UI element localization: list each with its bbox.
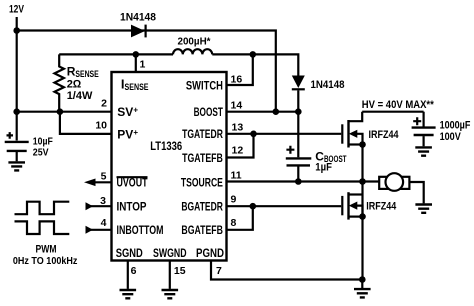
- wire PV+ pin10: [60, 112, 112, 134]
- svg-text:8: 8: [231, 217, 237, 229]
- node junction TGATEFB tie: [250, 131, 257, 138]
- ground SGND: [120, 290, 137, 298]
- svg-text:10: 10: [95, 120, 107, 132]
- pin 8 BGATEFB: [227, 206, 253, 230]
- pin 5 UVOUT (overline): [90, 181, 112, 183]
- svg-text:2Ω: 2Ω: [67, 79, 82, 91]
- ground below C2: [415, 147, 432, 155]
- svg-text:12V: 12V: [9, 4, 25, 16]
- pin 7 PGND: [211, 261, 362, 280]
- node junction switch tap: [250, 51, 257, 58]
- node junction D2-BOOST: [295, 108, 302, 115]
- svg-text:200µH*: 200µH*: [178, 36, 212, 48]
- inductor L1 200uH: [173, 49, 212, 54]
- svg-text:INTOP: INTOP: [117, 200, 147, 214]
- transistor Q1 IRFZ44 (top): [341, 124, 343, 143]
- svg-text:PGND: PGND: [196, 246, 224, 260]
- svg-text:7: 7: [216, 265, 222, 277]
- PWM source square waves: [15, 202, 70, 215]
- capacitor C1 10uF 25V: [5, 141, 29, 143]
- node junction 12V rail: [13, 27, 20, 34]
- svg-text:SGND: SGND: [116, 246, 143, 260]
- svg-text:INBOTTOM: INBOTTOM: [117, 223, 164, 237]
- motor M1: [363, 180, 380, 182]
- node junction BGATEFB tie: [250, 203, 257, 210]
- svg-text:3: 3: [100, 195, 106, 207]
- node junction CBOOST-TSOURCE: [295, 178, 302, 185]
- svg-text:1N4148: 1N4148: [120, 12, 156, 24]
- svg-text:PWM: PWM: [36, 244, 57, 256]
- pin 12 TGATEFB: [227, 134, 254, 158]
- node junction 12V-BOOST: [273, 108, 280, 115]
- pin 13 TGATEDR: [227, 133, 342, 135]
- svg-text:BGATEFB: BGATEFB: [181, 223, 223, 237]
- svg-text:1N4148: 1N4148: [311, 79, 345, 91]
- pin 14 BOOST: [227, 111, 299, 113]
- svg-text:13: 13: [232, 122, 244, 134]
- capacitor C2 1000uF 100V: [423, 112, 425, 127]
- pin 4 INBOTTOM: [88, 229, 112, 231]
- wire 12V vertical feed: [16, 17, 18, 141]
- wire sense/switch line: [59, 53, 173, 55]
- svg-text:15: 15: [174, 265, 186, 277]
- capacitor CBOOST 1uF: [297, 112, 299, 158]
- svg-text:BGATEDR: BGATEDR: [181, 200, 223, 214]
- svg-text:14: 14: [231, 100, 243, 112]
- svg-text:BOOST: BOOST: [194, 105, 224, 119]
- svg-text:12: 12: [232, 145, 244, 157]
- wire 12V top rail to BOOST: [17, 31, 276, 112]
- resistor RSENSE 2ohm 1/4W: [55, 54, 64, 111]
- svg-text:1000µF: 1000µF: [440, 120, 471, 132]
- plus sign C1: [7, 132, 14, 139]
- svg-text:100V: 100V: [440, 131, 462, 143]
- node junction bottom rail: [359, 276, 366, 283]
- svg-text:HV = 40V MAX**: HV = 40V MAX**: [362, 99, 435, 111]
- svg-text:5: 5: [101, 171, 107, 183]
- svg-text:1/4W: 1/4W: [67, 90, 93, 102]
- svg-text:1: 1: [140, 59, 146, 71]
- wire SV+ pin2: [17, 111, 112, 113]
- svg-text:6: 6: [131, 265, 137, 277]
- svg-text:1µF: 1µF: [315, 162, 332, 174]
- ground below C1: [8, 162, 25, 170]
- ground motor right: [415, 205, 432, 213]
- svg-text:11: 11: [231, 170, 242, 182]
- svg-text:IRFZ44: IRFZ44: [369, 129, 400, 141]
- pin 16 SWITCH: [227, 54, 253, 85]
- pin 3 INTOP: [88, 205, 112, 207]
- wire HV rail: [362, 111, 423, 113]
- svg-text:9: 9: [231, 194, 237, 206]
- pin 9 BGATEDR: [227, 205, 342, 207]
- svg-text:IRFZ44: IRFZ44: [366, 201, 397, 213]
- svg-text:SWGND: SWGND: [153, 246, 187, 260]
- svg-text:16: 16: [231, 74, 243, 86]
- wire motor node vertical: [361, 145, 363, 280]
- pin 11 TSOURCE: [227, 180, 363, 182]
- svg-text:LT1336: LT1336: [150, 141, 182, 153]
- transistor Q2 IRFZ44 (bottom): [341, 196, 343, 215]
- IC U1 LT1336 body: [112, 72, 227, 261]
- ground bottom rail: [361, 280, 363, 289]
- svg-text:TGATEFB: TGATEFB: [182, 151, 223, 165]
- svg-text:25V: 25V: [33, 147, 49, 159]
- pin 15 SWGND: [169, 261, 171, 289]
- pin 6 SGND: [127, 261, 129, 289]
- svg-text:SWITCH: SWITCH: [186, 78, 223, 92]
- diode D2 1N4148 (vertical): [292, 76, 305, 89]
- node junction motor node: [359, 178, 366, 185]
- ground SWGND: [162, 290, 179, 298]
- svg-text:TGATEDR: TGATEDR: [182, 127, 223, 141]
- node junction SV line left: [13, 108, 20, 115]
- svg-text:TSOURCE: TSOURCE: [181, 176, 223, 190]
- diode D1 1N4148 (horizontal): [131, 25, 145, 38]
- svg-text:2: 2: [101, 98, 107, 110]
- node junction pin1 tap: [133, 51, 140, 58]
- svg-text:0Hz TO 100kHz: 0Hz TO 100kHz: [13, 255, 78, 267]
- pin 1 ISENSE stub: [135, 54, 137, 72]
- svg-text:4: 4: [101, 217, 107, 229]
- node junction Q2 source: [359, 213, 366, 220]
- node junction Q1 source: [359, 141, 366, 148]
- node junction RSENSE bottom: [57, 108, 64, 115]
